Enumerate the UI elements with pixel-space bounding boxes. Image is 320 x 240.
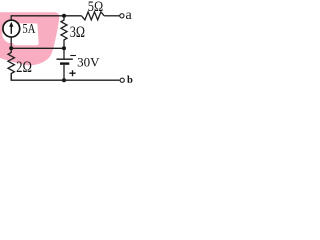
resistor R 3 Ohm (vertical zigzag, middle branch) — [61, 16, 67, 49]
resistor R 2 Ohm (vertical zigzag, left branch) — [8, 48, 14, 80]
node: top-middle junction dot — [62, 14, 66, 18]
battery minus sign — [70, 55, 76, 57]
wire: battery to bottom rail — [63, 65, 65, 80]
wire: top-left corner to 5Ohm resistor (top rail) — [11, 16, 81, 20]
svg-text:5Ω: 5Ω — [88, 0, 104, 15]
node: middle-left junction dot — [9, 46, 13, 50]
battery V1 30V stem from middle node — [63, 48, 65, 59]
current source I1 5A (circle) — [3, 20, 20, 37]
white knockout behind 5A label — [13, 23, 38, 45]
svg-text:30V: 30V — [77, 56, 99, 70]
svg-text:5A: 5A — [22, 21, 35, 36]
current source arrow (up) — [10, 26, 12, 34]
svg-text:2Ω: 2Ω — [16, 59, 32, 76]
wire: 5 Ohm to terminal a — [104, 15, 119, 17]
svg-text:b: b — [127, 75, 133, 86]
svg-text:3Ω: 3Ω — [70, 24, 85, 41]
node: bottom-middle junction dot — [62, 78, 66, 82]
resistor R 5 Ohm (horizontal zigzag) — [82, 12, 105, 20]
white knockout under current source — [2, 24, 20, 44]
terminal a (open circle) — [120, 14, 124, 18]
wire: current source to middle node — [10, 37, 12, 48]
battery short thick plate — [60, 62, 69, 64]
node: middle junction dot — [62, 46, 66, 50]
battery long plate — [57, 58, 73, 60]
terminal b (open circle) — [120, 78, 124, 82]
pink highlight region — [0, 12, 59, 65]
wire: middle rail — [11, 47, 64, 49]
svg-text:a: a — [126, 8, 133, 23]
wire: bottom rail — [11, 74, 119, 81]
battery plus sign — [69, 70, 75, 76]
